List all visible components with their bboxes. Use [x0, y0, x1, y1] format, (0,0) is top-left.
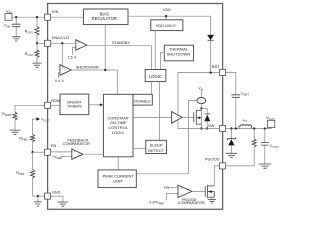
diode D2 catch schottky	[227, 129, 235, 154]
wire GND pin to right ground	[51, 196, 63, 202]
svg-text:REGULATOR: REGULATOR	[92, 16, 117, 21]
wire RON pin to RRON	[15, 105, 44, 112]
svg-text:EN/UVLO: EN/UVLO	[52, 35, 69, 40]
pin BST	[212, 64, 226, 76]
label +VREF	[52, 155, 63, 160]
resistor RPG pull-up	[252, 129, 256, 166]
svg-text:DISABLE: DISABLE	[134, 98, 151, 103]
wire divider to EN/UVLO pin	[37, 42, 44, 44]
svg-text:RON: RON	[51, 98, 60, 103]
pin GND	[45, 189, 61, 199]
wire SHUTDOWN signal to COT logic	[71, 70, 117, 94]
resistor RFB2	[16, 152, 34, 196]
ground (below CIN)	[12, 37, 21, 41]
label 0.4 V	[55, 79, 64, 83]
pin FB	[45, 143, 57, 155]
svg-text:+: +	[180, 187, 182, 191]
terminal VOUT	[266, 116, 275, 128]
transistor Q1 high-side NMOS	[194, 108, 202, 128]
svg-text:SW: SW	[208, 123, 215, 128]
node ground junction	[37, 195, 39, 197]
op-amp U5 shutdown comparator	[60, 65, 72, 76]
svg-text:TIMERS: TIMERS	[67, 104, 82, 109]
node FB divider junction	[31, 151, 33, 153]
node boot diode junction	[210, 71, 212, 73]
svg-text:FB: FB	[164, 186, 169, 190]
wire VIN pin to bias regulator	[51, 16, 84, 18]
wire LOGIC to sleep detect	[159, 82, 161, 141]
svg-text:LIMIT: LIMIT	[113, 179, 124, 184]
wire thermal shutdown to LOGIC	[161, 52, 165, 69]
wire RFB2 to GND pin	[33, 195, 45, 197]
node CIN tap	[15, 16, 17, 18]
ground (below Q2)	[208, 200, 216, 203]
svg-text:−: −	[74, 156, 76, 160]
wire 0.4V reference stub	[58, 73, 60, 79]
resistor RUV1	[25, 17, 39, 43]
svg-text:SHUTDOWN: SHUTDOWN	[167, 52, 191, 57]
label STANDBY	[112, 40, 130, 45]
wire gate driver to Q1 gate	[182, 116, 194, 118]
block U10 SLEEP DETECT	[146, 140, 167, 153]
wire VIN terminal to VIN pin	[12, 16, 44, 18]
svg-text:STANDBY: STANDBY	[112, 40, 130, 45]
wire shutdown to bias regulator	[104, 25, 106, 70]
source VIN (internal supply circle)	[197, 87, 206, 109]
op-amp U12 feedback comparator	[72, 149, 83, 160]
svg-text:+: +	[62, 66, 64, 70]
node EN divider junction	[36, 42, 38, 44]
wire comparator to Q2 gate	[192, 190, 205, 192]
svg-text:VDD: VDD	[163, 7, 171, 12]
ground (below RUV2)	[32, 63, 41, 67]
op-amp U4 standby comparator	[76, 40, 87, 51]
label SHUTDOWN	[76, 64, 99, 69]
block U8 CONSTANT ON-TIME CONTROL LOGIC	[103, 94, 133, 157]
ground (below catch diode)	[226, 153, 237, 157]
svg-text:LOGIC: LOGIC	[112, 130, 125, 135]
wire BST pin to CBST	[226, 72, 236, 94]
wire Q2 drain to PGOOD pin	[214, 166, 219, 186]
wire VREF stub	[60, 155, 71, 157]
wire current sense (peak current limit to VIN source)	[136, 101, 197, 174]
label 1.5 V	[67, 56, 76, 60]
wire SW pin to output	[226, 127, 271, 130]
op-amp U13 gate driver	[172, 112, 183, 124]
capacitor COUT	[261, 129, 279, 164]
diode Q1 body diode	[201, 108, 210, 128]
node VDD	[163, 7, 171, 17]
svg-text:1.5 V: 1.5 V	[67, 56, 76, 60]
wire BST rail (BST pin to driver/SW)	[178, 73, 219, 129]
label FB (pgood comparator input)	[164, 186, 169, 190]
wire junction to left ground	[37, 196, 39, 202]
node CBST tap	[235, 127, 237, 129]
resistor RUV2	[25, 43, 39, 63]
node VOUT feedback arrow	[33, 117, 50, 134]
pin PGOOD	[205, 156, 226, 169]
svg-text:0.4 V: 0.4 V	[55, 79, 64, 83]
wire divider to FB pin	[33, 151, 45, 153]
svg-text:COMPARATOR: COMPARATOR	[63, 141, 90, 146]
wire SW rail	[178, 128, 219, 130]
wire pull-up to PGOOD pin	[226, 165, 254, 167]
wire FB pin to feedback comparator	[51, 151, 72, 153]
wire COT logic to peak current limit	[117, 157, 119, 170]
pin RON	[45, 98, 60, 108]
capacitor CBST	[231, 91, 249, 128]
node COUT tap	[264, 127, 266, 129]
svg-text:PGOOD: PGOOD	[205, 156, 220, 161]
wire VDD UVLO to LOGIC	[154, 31, 156, 70]
svg-text:DETECT: DETECT	[148, 148, 165, 153]
op-amp U14 PGOOD comparator	[178, 185, 192, 197]
node shutdown junction	[104, 69, 106, 71]
wire timers to COT logic	[89, 104, 104, 106]
svg-text:COMPARATOR: COMPARATOR	[178, 200, 205, 205]
block U2 VDD UVLO	[151, 20, 183, 31]
node catch diode tap	[230, 127, 232, 129]
block U9 DISABLE	[133, 94, 152, 105]
node RUV1 tap	[36, 16, 38, 18]
ground (left of GND pin)	[34, 202, 42, 206]
wire 0.8*VREF stub	[167, 193, 179, 200]
wire VDD to VDD UVLO	[165, 16, 167, 20]
svg-text:BST: BST	[212, 64, 220, 69]
wire feedback comparator to COT logic	[83, 153, 104, 155]
terminal VIN (supply input)	[5, 9, 12, 21]
block U11 PEAK CURRENT LIMIT	[98, 170, 136, 188]
inductor LO	[239, 118, 252, 128]
node EN/UVLO branch	[61, 42, 63, 44]
block U7 ON/OFF TIMERS	[60, 94, 89, 115]
capacitor CIN	[4, 17, 21, 37]
svg-text:VIN: VIN	[52, 9, 59, 14]
wire COT logic to gate driver	[133, 116, 172, 118]
svg-text:PEAK CURRENT: PEAK CURRENT	[103, 173, 135, 178]
block U6 LOGIC	[145, 70, 166, 82]
ground (below COUT)	[259, 164, 271, 168]
wire COT logic to sleep detect	[133, 148, 146, 150]
diode D1 (BST boot diode)	[207, 35, 214, 73]
label PGOOD COMPARATOR	[178, 197, 205, 205]
wire LOGIC to DISABLE	[151, 82, 153, 95]
node timers output	[100, 104, 102, 106]
node Q1 drain	[200, 107, 202, 109]
node PGOOD pull-up tap	[253, 127, 255, 129]
block U1 BIAS REGULATOR	[84, 9, 129, 25]
wire RON pin to on/off timers	[51, 104, 60, 106]
transistor Q2 PGOOD open-drain NMOS	[205, 185, 214, 200]
IC boundary	[48, 4, 223, 210]
wire FB stub to pgood comparator	[169, 187, 178, 189]
label 0.8*VREF	[149, 201, 164, 206]
wire 1.5V reference stub	[73, 47, 76, 54]
ground (right of GND pin)	[58, 202, 69, 206]
pin VIN	[45, 9, 59, 20]
resistor RFB1	[19, 135, 34, 153]
svg-text:FB: FB	[51, 143, 56, 148]
ground (below RRON)	[9, 130, 20, 134]
svg-text:GND: GND	[52, 189, 61, 194]
pin EN/UVLO	[45, 35, 69, 46]
svg-text:−: −	[78, 46, 80, 50]
block U3 THERMAL SHUTDOWN	[164, 45, 193, 61]
svg-text:+: +	[74, 150, 76, 154]
resistor RRON	[2, 111, 17, 130]
svg-text:SHUTDOWN: SHUTDOWN	[76, 64, 99, 69]
svg-text:LOGIC: LOGIC	[149, 74, 162, 79]
wire EN/UVLO pin to standby comparator	[51, 42, 75, 44]
wire STANDBY signal to LOGIC	[87, 45, 152, 70]
node body diode anode on SW rail	[206, 127, 208, 129]
node Q1 source on SW rail	[200, 127, 202, 129]
label FEEDBACK COMPARATOR	[63, 137, 90, 146]
wire VDD rail (bias regulator to boot diode)	[128, 16, 211, 35]
pin SW	[208, 123, 226, 132]
svg-text:+: +	[78, 41, 80, 45]
svg-text:−: −	[62, 71, 64, 75]
wire EN/UVLO to shutdown comparator	[61, 43, 63, 66]
svg-text:VDD UVLO: VDD UVLO	[156, 24, 176, 28]
